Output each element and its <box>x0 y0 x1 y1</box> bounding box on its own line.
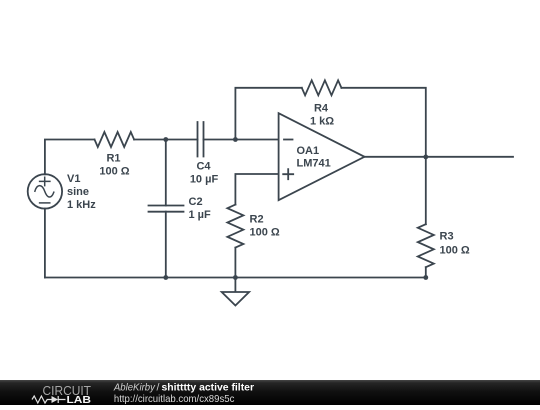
svg-text:100 Ω: 100 Ω <box>440 245 470 257</box>
wire C2 lower branch <box>165 212 167 278</box>
wire V1 bottom to ground rail <box>44 209 46 278</box>
wire R4 to output column <box>341 88 425 157</box>
op-amp plus symbol <box>283 169 293 179</box>
op-amp minus symbol <box>284 139 293 141</box>
voltage source V1 circle <box>28 174 62 208</box>
logo resistor glyph <box>32 396 51 403</box>
ground <box>222 278 249 306</box>
wire V1 top to R1 row <box>45 140 95 175</box>
logo diode glyph <box>52 396 59 403</box>
svg-text:AbleKirby: AbleKirby <box>113 382 156 394</box>
V1 minus symbol <box>40 202 50 204</box>
op-amp OA1 triangle <box>279 113 365 200</box>
resistor R1 <box>95 132 135 147</box>
svg-text:LM741: LM741 <box>297 157 331 169</box>
svg-text:R1: R1 <box>106 153 120 165</box>
footer bar <box>0 380 540 405</box>
resistor R3 <box>418 224 434 267</box>
resistor R4 <box>302 80 342 95</box>
wire C2 upper branch <box>165 140 167 206</box>
svg-text:100 Ω: 100 Ω <box>99 166 129 178</box>
svg-text:LAB: LAB <box>67 395 92 405</box>
svg-text:shitttty active filter: shitttty active filter <box>162 382 255 394</box>
capacitor C4 <box>198 122 204 157</box>
wire R2 to ground rail <box>234 248 236 278</box>
capacitor C2 <box>149 206 184 212</box>
svg-text:R2: R2 <box>250 214 264 226</box>
svg-text:C4: C4 <box>196 161 211 173</box>
resistor R2 <box>227 205 243 248</box>
node output junction <box>423 155 428 160</box>
svg-text:1 kΩ: 1 kΩ <box>310 116 334 128</box>
svg-text:10 µF: 10 µF <box>190 174 219 186</box>
wire output to R3 <box>425 157 427 224</box>
node ground junction <box>233 275 238 280</box>
wire R1 to C4 <box>134 139 197 141</box>
wire C4 to op-amp minus input <box>204 139 279 141</box>
node R1/C2 junction <box>163 137 168 142</box>
wire R3 to ground rail <box>425 267 427 277</box>
svg-text:1 kHz: 1 kHz <box>67 199 96 211</box>
svg-text:1 µF: 1 µF <box>189 209 212 221</box>
svg-text:OA1: OA1 <box>297 145 320 157</box>
svg-text:C2: C2 <box>189 196 203 208</box>
svg-text:/: / <box>157 382 160 394</box>
node R3 bottom junction <box>423 275 428 280</box>
node C4/feedback junction <box>233 137 238 142</box>
svg-text:http://circuitlab.com/cx89s5c: http://circuitlab.com/cx89s5c <box>114 393 234 405</box>
svg-text:R3: R3 <box>440 231 454 243</box>
V1 plus symbol <box>40 177 50 185</box>
wire op-amp output <box>365 156 514 158</box>
node C2 bottom junction <box>163 275 168 280</box>
wire feedback riser <box>235 88 301 140</box>
wire plus input <box>235 174 278 205</box>
wire bottom rail <box>45 277 426 279</box>
svg-text:sine: sine <box>67 186 89 198</box>
svg-text:100 Ω: 100 Ω <box>250 227 280 239</box>
svg-text:V1: V1 <box>67 173 80 185</box>
V1 sine symbol <box>35 186 54 197</box>
svg-text:R4: R4 <box>314 103 329 115</box>
